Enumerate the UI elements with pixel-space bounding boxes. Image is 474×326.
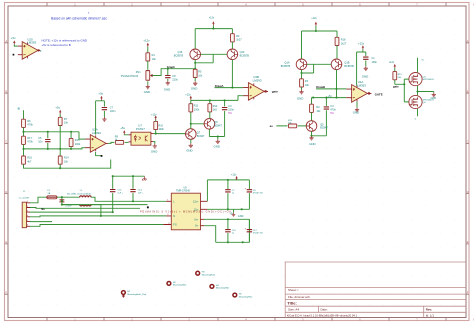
svg-text:100n: 100n	[372, 61, 378, 64]
wire	[59, 126, 61, 157]
power +12v (R10)	[151, 114, 157, 120]
svg-text:MountingHole: MountingHole	[173, 284, 187, 287]
power +12v (mirror 1)	[209, 16, 215, 25]
wire into + input	[79, 132, 85, 139]
svg-text:R11: R11	[194, 105, 199, 108]
resistor R6	[22, 119, 34, 127]
svg-text:GND: GND	[186, 149, 192, 153]
svg-text:BC847: BC847	[214, 125, 222, 128]
svg-text:12v+: 12v+	[193, 200, 199, 203]
svg-text:Graph: Graph	[167, 65, 176, 69]
ground (U1A)	[353, 108, 359, 115]
wire Q3 source / Q4 drain	[418, 86, 434, 96]
power +5v (opto)	[120, 126, 125, 134]
resistor R9	[115, 135, 124, 144]
svg-text:4: 4	[27, 215, 28, 217]
svg-text:D: D	[5, 191, 7, 194]
wire +12v rail mirror 1	[195, 25, 232, 49]
svg-text:TMR-1769-B: TMR-1769-B	[176, 190, 190, 193]
svg-text:PE(MAINS) 5 V(+5v) + MCM(MOSI): PE(MAINS) 5 V(+5v) + MCM(MOSI) GND(+OC)+…	[140, 210, 231, 213]
wire R12 to Q8 collector	[209, 112, 211, 119]
transistor Q16	[174, 49, 201, 60]
svg-text:MountingHole_Pad: MountingHole_Pad	[127, 293, 146, 296]
wire	[23, 144, 25, 156]
wire N line	[30, 205, 166, 217]
svg-text:470uF 25v: 470uF 25v	[253, 232, 264, 234]
svg-text:MountingHole: MountingHole	[239, 295, 253, 298]
mounting hole H2	[167, 282, 187, 287]
wire Q7 emitter to gnd	[190, 139, 192, 143]
ground (C8)	[164, 81, 170, 92]
transistor Q5	[306, 121, 328, 132]
wire DrawB net	[316, 70, 346, 98]
ground (C7)	[102, 117, 106, 121]
wire +12v rail mirror 2	[302, 26, 338, 59]
capacitor C4	[324, 98, 337, 136]
svg-text:DrawB: DrawB	[316, 85, 325, 89]
transistor Q7	[186, 129, 206, 140]
converter module U9	[163, 186, 207, 229]
wire	[59, 114, 61, 117]
svg-text:BC847: BC847	[320, 127, 328, 130]
mounting hole H5	[233, 293, 253, 298]
wire pin5 stub	[30, 221, 52, 223]
svg-text:R12: R12	[213, 105, 218, 108]
wire Q4 source	[417, 109, 419, 117]
svg-text:4k7: 4k7	[27, 160, 32, 163]
resistor R1	[146, 53, 156, 61]
op-amp U1A	[346, 80, 371, 102]
svg-text:BC857B: BC857B	[281, 65, 291, 68]
wire	[147, 61, 149, 70]
svg-text:File: dimmer.sch: File: dimmer.sch	[288, 295, 310, 299]
svg-text:5: 5	[27, 220, 28, 222]
svg-text:GND: GND	[164, 88, 170, 92]
wire line5	[30, 211, 113, 213]
ground (C1)	[362, 66, 368, 78]
resistor R4	[231, 34, 243, 42]
svg-text:+12v: +12v	[151, 114, 157, 117]
svg-text:100k: 100k	[75, 143, 81, 146]
wire FG line	[30, 225, 163, 227]
connector J1	[19, 191, 30, 228]
wire Q5 emitter/C4 node	[312, 131, 327, 136]
wire op-amp V- to square	[96, 152, 101, 156]
wire	[23, 110, 25, 119]
resistor R10	[154, 119, 165, 133]
svg-text:2: 2	[27, 206, 28, 208]
wire Q7 collector / Q8 base	[191, 112, 204, 129]
svg-text:1: 1	[27, 201, 28, 203]
svg-text:LM393: LM393	[253, 78, 262, 82]
svg-text:1k5: 1k5	[213, 109, 218, 112]
op-amp U3B	[243, 75, 268, 100]
svg-text:BC847: BC847	[197, 135, 205, 138]
resistor R16	[22, 156, 33, 164]
transistor Q8	[204, 119, 222, 130]
svg-text:+12v: +12v	[209, 16, 215, 19]
svg-text:R10: R10	[158, 124, 163, 127]
wire RV1 bottom	[147, 81, 149, 84]
svg-text:6: 6	[27, 225, 28, 227]
wire U1A + input	[345, 88, 347, 90]
svg-text:PVG5A473C03: PVG5A473C03	[121, 75, 139, 78]
capacitor C3	[222, 105, 235, 136]
svg-text:R16: R16	[27, 157, 32, 160]
wire lower rail into U1A - input	[312, 97, 347, 99]
wire	[57, 196, 80, 198]
svg-text:Date:: Date:	[321, 308, 328, 312]
wire L to module	[91, 197, 166, 201]
wire R18 to Q1B	[336, 46, 338, 60]
earth symbol	[142, 176, 147, 180]
svg-text:BC857B: BC857B	[174, 55, 184, 58]
svg-text:BC857B: BC857B	[240, 55, 250, 58]
svg-text:220nF: 220nF	[65, 205, 72, 207]
wire R3 bottom	[301, 87, 303, 90]
svg-text:+5v: +5v	[11, 36, 16, 40]
svg-text:DrawA: DrawA	[215, 84, 224, 88]
wire gate net	[395, 79, 409, 102]
svg-text:100n: 100n	[110, 110, 116, 113]
capacitor C9	[245, 180, 264, 209]
capacitor C14	[130, 176, 144, 201]
svg-text:Title:: Title:	[287, 301, 296, 306]
svg-text:KiCad E.D.A. kicad 5.1.10-88a: KiCad E.D.A. kicad 5.1.10-88a1d61d58~88~…	[287, 313, 358, 317]
resistor R11	[189, 104, 200, 112]
svg-text:+12v: +12v	[311, 17, 317, 20]
op-amp U2A	[85, 128, 108, 153]
wire Na line	[30, 207, 140, 210]
svg-text:GND: GND	[151, 149, 157, 153]
ground (mosfet mid)	[431, 92, 437, 101]
power +5v (C7)	[98, 92, 103, 100]
svg-text:+12v: +12v	[358, 41, 365, 45]
svg-text:GND: GND	[191, 87, 197, 91]
wire R2 to Q5	[311, 112, 313, 120]
svg-text:PC817: PC817	[136, 127, 145, 131]
ground (R3)	[297, 90, 304, 101]
wire U1A V-	[356, 101, 358, 107]
svg-text:+5v is referenced to B: +5v is referenced to B	[42, 43, 71, 47]
ground (Q5)	[309, 136, 315, 146]
capacitor C7	[102, 107, 116, 114]
wire into - input	[71, 148, 85, 149]
wire R4 to Q1	[231, 42, 233, 49]
wire base link mirror 1	[195, 54, 227, 63]
svg-text:470k: 470k	[27, 124, 33, 127]
svg-text:Na: Na	[41, 207, 45, 211]
wire	[103, 111, 105, 117]
svg-text:GND: GND	[214, 145, 220, 149]
svg-text:3: 3	[27, 210, 28, 212]
wire 12v- rail (module)	[207, 208, 249, 210]
svg-text:MountingHole: MountingHole	[216, 287, 230, 290]
svg-text:gate: gate	[272, 90, 279, 94]
svg-text:N: N	[173, 215, 175, 218]
svg-text:RV1: RV1	[136, 71, 141, 74]
svg-text:D: D	[467, 191, 469, 194]
svg-text:1k27: 1k27	[236, 39, 242, 42]
resistor R15	[69, 132, 81, 149]
mosfet Q4	[409, 95, 434, 108]
wire PE line	[62, 204, 148, 206]
optocoupler U7	[129, 124, 154, 146]
wire base link mirror 2	[302, 64, 332, 73]
svg-text:SPD50N03: SPD50N03	[423, 79, 435, 81]
svg-text:LM393: LM393	[357, 83, 366, 87]
wire cap rail top	[113, 175, 145, 177]
svg-text:1uF +: 1uF +	[117, 192, 123, 194]
resistor R12	[208, 104, 218, 112]
mounting hole H3	[196, 271, 216, 276]
power +12v (R11)	[185, 94, 192, 100]
svg-text:GND: GND	[362, 75, 368, 79]
transistor Q1	[227, 49, 249, 60]
power +12v (R1/RV1)	[143, 39, 150, 47]
svg-text:LM393: LM393	[92, 131, 101, 135]
power +12v (C1)	[358, 41, 365, 49]
wire	[59, 164, 61, 168]
wire opto emitter to gnd	[153, 142, 155, 144]
svg-text:GND: GND	[353, 111, 359, 115]
svg-text:+5v: +5v	[120, 126, 125, 130]
svg-text:Sheet: /: Sheet: /	[288, 288, 299, 292]
ground (Q7)	[186, 143, 193, 152]
svg-text:220n: 220n	[172, 78, 178, 81]
capacitor C5	[38, 132, 50, 149]
wire Q1A collector	[301, 70, 303, 79]
wire wiper Graph net	[152, 69, 195, 76]
inductor L1	[67, 190, 92, 206]
wire Q3 drain	[417, 58, 419, 73]
capacitor C13	[110, 176, 124, 212]
power +12v (mirror 2)	[311, 17, 317, 26]
svg-text:470uF 25v: 470uF 25v	[253, 193, 264, 195]
wire Q5 base	[276, 125, 306, 127]
transistor Q1A	[281, 59, 307, 70]
svg-text:FG: FG	[173, 224, 177, 227]
wire rail into U3B - input	[225, 96, 244, 101]
svg-text:BC857B: BC857B	[344, 65, 354, 68]
svg-text:GND: GND	[144, 90, 150, 94]
svg-text:+12v: +12v	[231, 174, 237, 177]
wire	[14, 45, 17, 47]
wire	[125, 141, 129, 143]
op-amp U20	[18, 37, 42, 59]
wire node row mid	[24, 148, 72, 150]
svg-text:100k: 100k	[194, 108, 200, 111]
svg-text:B: B	[18, 107, 20, 111]
ground (RV1)	[144, 85, 150, 94]
wire DrawA net	[215, 60, 244, 88]
title block	[285, 262, 466, 318]
svg-text:GND: GND	[309, 142, 315, 146]
svg-text:C: C	[5, 141, 7, 144]
resistor R15b	[393, 68, 403, 80]
svg-text:+12v: +12v	[389, 61, 395, 64]
capacitor C10	[225, 219, 236, 242]
node: label square	[101, 155, 103, 157]
wire node row R6/R17	[24, 131, 80, 133]
fuse F1	[47, 190, 57, 199]
mosfet Q3	[409, 73, 434, 86]
svg-text:GND: GND	[238, 215, 244, 218]
ground (module mid)	[232, 209, 244, 218]
wire bottom rail	[24, 160, 111, 169]
svg-text:+5v: +5v	[55, 105, 60, 109]
svg-text:0v-: 0v-	[195, 225, 199, 228]
svg-text:10n: 10n	[38, 141, 43, 144]
power +5v (R7)	[55, 105, 61, 114]
svg-text:ao: ao	[270, 124, 274, 128]
svg-text:1uF +: 1uF +	[138, 192, 144, 194]
wire R5 bottom	[194, 78, 196, 82]
capacitor C1	[357, 49, 378, 85]
capacitor C8	[165, 69, 178, 82]
wire	[124, 133, 128, 136]
svg-text:We-CMB_CommonMode: We-CMB_CommonMode	[67, 193, 92, 195]
wire	[96, 100, 105, 135]
ground (R5)	[191, 81, 198, 91]
resistor R5	[193, 69, 203, 77]
svg-text:Id: 1/1: Id: 1/1	[426, 313, 435, 317]
svg-text:+12v: +12v	[143, 39, 150, 43]
wire +12v rail (module)	[207, 180, 249, 201]
wire U2A out	[108, 142, 114, 143]
svg-text:+5v: +5v	[98, 92, 103, 96]
svg-text:100k: 100k	[158, 128, 164, 131]
svg-text:Size: A4: Size: A4	[288, 308, 299, 312]
svg-text:R17: R17	[27, 137, 32, 140]
svg-text:Cx+2C/4R: Cx+2C/4R	[19, 198, 30, 200]
ground (Q8 stage)	[214, 137, 221, 149]
wire	[147, 47, 149, 53]
node: open input square	[13, 54, 15, 56]
wire Q16 collector	[194, 60, 196, 70]
wire +12v rail R11/R12/C3	[191, 100, 225, 107]
potentiometer RV1	[121, 71, 152, 81]
svg-text:C: C	[467, 141, 469, 144]
ground (opto)	[151, 144, 157, 154]
capacitor C7b	[225, 180, 235, 209]
svg-text:GND: GND	[297, 97, 303, 101]
power +12v (module)	[231, 174, 238, 180]
capacitor C12	[245, 219, 264, 242]
resistor R7	[58, 117, 68, 125]
svg-text:Based on a4h schematic dimmer7: Based on a4h schematic dimmer7.asc	[51, 17, 107, 21]
wire 0v- route	[204, 226, 249, 243]
svg-text:470k: 470k	[27, 141, 33, 144]
resistor R17	[22, 136, 34, 144]
capacitor C15 X2	[59, 197, 72, 207]
title block text	[287, 288, 434, 317]
resistor R14	[58, 156, 69, 164]
wire Q8 emitter rail	[209, 129, 224, 136]
svg-text:R14: R14	[64, 157, 69, 160]
resistor R18	[335, 37, 347, 45]
svg-text:1k27: 1k27	[341, 42, 347, 45]
resistor R13	[288, 120, 297, 128]
svg-text:Rev:: Rev:	[426, 308, 433, 312]
resistor R2	[310, 98, 322, 113]
wire L line	[30, 197, 47, 203]
wire 0v+ rail (module)	[204, 219, 250, 242]
svg-text:GATE: GATE	[375, 92, 383, 96]
power +12v (R15)	[389, 61, 396, 68]
node: black square marker	[147, 206, 149, 208]
svg-text:0v+: 0v+	[194, 218, 199, 221]
mounting hole H1	[122, 291, 147, 298]
svg-text:R18: R18	[341, 39, 346, 42]
resistor R3	[300, 79, 310, 87]
power +5V (U20)	[11, 36, 16, 45]
wire	[23, 127, 25, 136]
svg-text:MountingHole: MountingHole	[202, 274, 216, 277]
transistor Q1B	[331, 59, 354, 70]
mounting hole H4	[210, 285, 230, 290]
wire opto collector	[154, 133, 186, 135]
svg-text:LM393: LM393	[27, 41, 36, 45]
svg-text:gate: gate	[393, 85, 399, 89]
